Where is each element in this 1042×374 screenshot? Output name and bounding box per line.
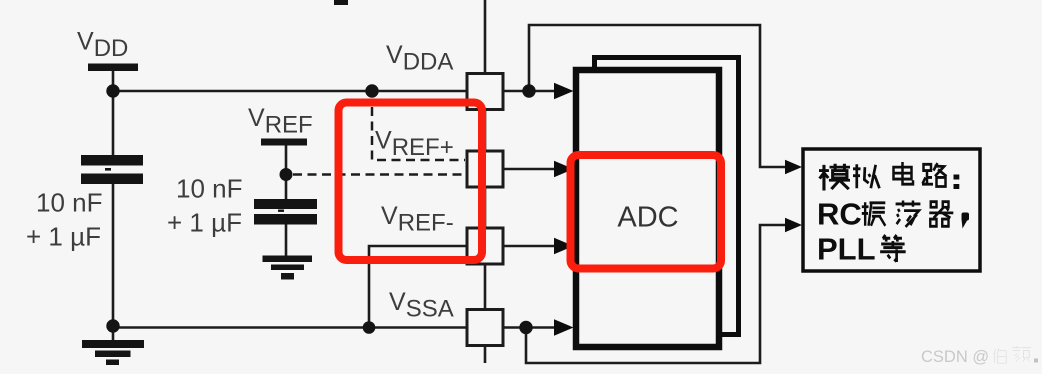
svg-text:PLL: PLL (817, 231, 876, 266)
svg-text:CSDN @: CSDN @ (921, 348, 989, 366)
svg-text:10 nF: 10 nF (36, 188, 103, 218)
svg-text:RC: RC (817, 196, 862, 231)
svg-text:+ 1 µF: + 1 µF (26, 222, 101, 252)
svg-text:ADC: ADC (617, 202, 678, 234)
svg-text:+ 1 µF: + 1 µF (167, 208, 242, 238)
svg-text:10 nF: 10 nF (176, 174, 243, 204)
